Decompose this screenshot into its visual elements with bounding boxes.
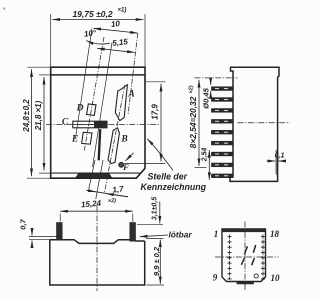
dim 9,9 line: [159, 240, 161, 284]
svg-text:C: C: [62, 118, 69, 128]
svg-text:21,8 ×1): 21,8 ×1): [34, 100, 43, 131]
dim 3,1 extension bottom: [146, 238, 164, 240]
horizontal centerline through C: [46, 123, 160, 125]
bottom section ledge right of post: [135, 240, 144, 242]
svg-text:19,75 ±0,2: 19,75 ±0,2: [72, 9, 112, 19]
dim 0,7 upper arrow: [31, 229, 33, 236]
left solder post: [57, 223, 63, 240]
key slot lower left: [241, 258, 244, 265]
dim 15,24 line: [60, 210, 133, 212]
side view horizontal centerline: [238, 122, 291, 124]
slanted centerline L2: [84, 37, 104, 151]
dim 8x2,54 line: [198, 80, 200, 166]
svg-text:9: 9: [213, 273, 218, 283]
dim 19,75 line: [52, 19, 143, 21]
dim 1,7 line: [87, 190, 129, 197]
dim 3,1 arrow: [159, 202, 161, 224]
slanted centerline L5 through slots A B: [105, 85, 125, 192]
dim 17,9 extension bottom: [124, 162, 166, 164]
svg-text:0,1: 0,1: [275, 153, 285, 160]
slot A: [115, 85, 127, 121]
svg-text:Ø0,45: Ø0,45: [202, 87, 211, 108]
svg-text:F: F: [122, 162, 129, 172]
svg-text:0,7: 0,7: [19, 218, 28, 229]
dim 17,9 extension top: [146, 81, 166, 83]
svg-text:B: B: [120, 135, 127, 145]
dim 19,75 extension left: [50, 14, 52, 66]
svg-text:17,9: 17,9: [151, 104, 160, 120]
left extension band: [39, 74, 50, 76]
svg-text:lötbar: lötbar: [169, 230, 193, 240]
dim 21,8 line: [43, 77, 45, 170]
dim 2,54 line: [208, 150, 210, 180]
svg-text:D: D: [76, 104, 84, 114]
svg-text:×2): ×2): [108, 198, 117, 205]
dim 0,7 extension lower: [29, 239, 50, 241]
slanted construction line L3: [93, 43, 113, 168]
dim 5,15 line: [97, 48, 135, 52]
svg-text:10°: 10°: [84, 28, 98, 39]
svg-text:10: 10: [271, 273, 281, 283]
dim 0,7 lower arrow: [31, 241, 33, 248]
svg-text:1,7: 1,7: [112, 184, 125, 194]
svg-text:×2): ×2): [189, 85, 195, 93]
pin 5: [212, 130, 234, 134]
bottom section top edge: [50, 240, 130, 244]
short slant line Sb below body: [96, 160, 103, 199]
index circle: [254, 274, 258, 278]
angle 10 deg arc: [86, 41, 109, 44]
front view inner bottom line: [51, 172, 140, 174]
short slant line Sa below body: [89, 160, 95, 189]
pin 9: [212, 174, 234, 178]
svg-text:10: 10: [111, 19, 121, 29]
leader loetbar: [140, 235, 168, 237]
pin 3: [212, 109, 234, 113]
dim 24,8 line: [31, 69, 33, 176]
svg-text:1: 1: [214, 229, 219, 239]
pin face top strip: [222, 229, 265, 232]
svg-text:5,15: 5,15: [112, 37, 129, 48]
svg-text:×1): ×1): [118, 8, 127, 14]
key slot upper right: [253, 245, 255, 253]
left extension bottom: [27, 177, 50, 179]
slot C outline: [73, 121, 107, 128]
dim dia 0,45 upper arrow: [210, 79, 212, 85]
svg-text:9,9 ± 0,2: 9,9 ± 0,2: [152, 246, 161, 276]
front view hatched bottom pad: [76, 174, 112, 179]
pin cross marks right column: [261, 235, 265, 280]
mark F circle: [119, 162, 124, 167]
svg-text:8×2,54=20,32: 8×2,54=20,32: [188, 96, 198, 148]
slanted centerline L4: [128, 33, 138, 115]
svg-text:15,24: 15,24: [81, 199, 102, 210]
slot E: [82, 132, 92, 144]
pin 6: [212, 141, 234, 145]
pin cross marks left column: [227, 235, 231, 280]
pin face bottom tab: [237, 282, 254, 284]
pin 8: [212, 163, 234, 167]
dim dia 0,45 lower arrow: [210, 91, 212, 97]
pin 4: [212, 120, 234, 124]
slanted construction line L1: [76, 28, 93, 138]
arrow to F: [125, 153, 133, 161]
svg-text:E: E: [71, 135, 78, 145]
slot D: [87, 104, 96, 116]
side view thin wall line 0,1: [275, 150, 277, 175]
slot B: [108, 128, 119, 164]
paper speck: [4, 8, 6, 10]
svg-text:18: 18: [270, 229, 280, 239]
vertical centerline: [244, 222, 246, 292]
pin 2: [212, 98, 234, 102]
dim 19,75 extension right: [144, 14, 146, 66]
key slot lower right: [252, 258, 255, 265]
dim 9,9 bottom extension: [147, 284, 165, 286]
svg-text:24,8 ± 0,2: 24,8 ± 0,2: [22, 99, 31, 133]
bottom section view body: [50, 240, 145, 285]
front view outline: [51, 67, 145, 178]
dim 15,24 right extension: [132, 214, 134, 222]
front view top band line: [51, 74, 145, 76]
horizontal centerline: [215, 256, 279, 258]
dim 15,24 left extension: [59, 214, 61, 222]
dim 10 line: [94, 28, 138, 33]
dim 0,1 right arrow: [278, 160, 286, 162]
side view body outline: [230, 67, 279, 181]
right solder post: [130, 223, 136, 242]
pin hatch highlights: [215, 89, 228, 176]
dim 0,7 extension upper: [29, 235, 61, 237]
pin 1: [212, 87, 234, 91]
pin 7: [212, 152, 234, 156]
narrow vertical slot below C: [99, 129, 101, 160]
svg-text:A: A: [127, 90, 134, 100]
leader Stelle der Kennzeichnung: [147, 139, 173, 171]
dim 21,8 bottom extension: [39, 172, 51, 174]
dim 8x2,54 bottom extension: [195, 166, 207, 168]
dim 17,9 line: [160, 84, 162, 162]
dim 3,1 extension top: [137, 223, 163, 225]
svg-text:3,1±0,5: 3,1±0,5: [152, 197, 159, 220]
svg-text:Kennzeichnung: Kennzeichnung: [141, 182, 207, 192]
dim 0,1 left arrow: [267, 160, 276, 162]
key slot upper left: [244, 246, 247, 254]
svg-text:Stelle der: Stelle der: [148, 172, 188, 182]
svg-text:2,54: 2,54: [202, 148, 209, 163]
vertical centerline: [96, 205, 98, 291]
pin face view body: [222, 229, 266, 282]
slot C dark right part: [94, 121, 107, 127]
slot C inner line: [74, 124, 95, 126]
pin row top centerline: [195, 77, 238, 79]
dim 1,7 right arrow: [106, 194, 128, 197]
left extension top: [27, 66, 50, 68]
dim 1,7 left arrow: [87, 190, 96, 192]
